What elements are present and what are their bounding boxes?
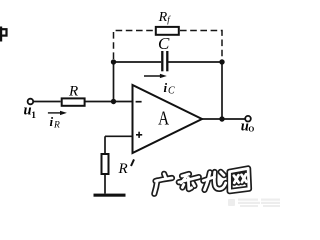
svg-text:i: i xyxy=(50,114,54,129)
svg-text:R: R xyxy=(68,84,78,100)
svg-text:R: R xyxy=(118,161,128,177)
svg-text:R: R xyxy=(53,121,60,131)
svg-text:A: A xyxy=(158,109,169,130)
svg-text:C: C xyxy=(158,34,170,53)
svg-text:i: i xyxy=(164,80,168,95)
svg-text:C: C xyxy=(168,86,175,97)
svg-text:O: O xyxy=(248,125,254,134)
svg-text:1: 1 xyxy=(31,111,36,121)
svg-text:R: R xyxy=(158,10,168,25)
